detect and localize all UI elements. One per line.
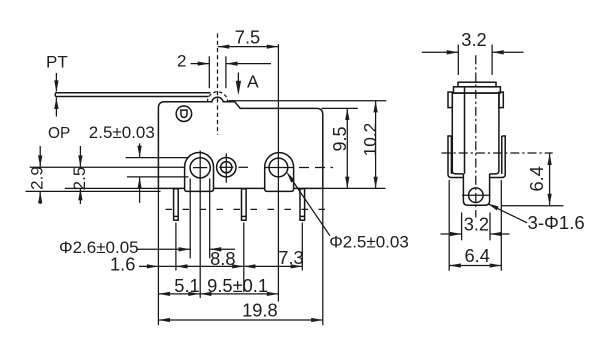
dim 2 arrows	[191, 63, 210, 65]
left mounting hole	[190, 158, 210, 178]
left mounting lug	[185, 152, 214, 191]
extension terminal 1 down	[175, 223, 177, 271]
side view plunger cap step	[454, 87, 501, 93]
switch body outline	[158, 97, 322, 188]
dim 7.3 line	[244, 265, 302, 267]
dim 9.5 vertical	[346, 108, 348, 188]
hole bottom tangent line	[127, 176, 189, 178]
side view lower ear left	[448, 136, 463, 178]
side view case seam line	[464, 87, 466, 174]
bottom edge extension right	[323, 187, 386, 189]
side view body right side	[490, 93, 499, 174]
svg-text:10.2: 10.2	[360, 123, 380, 157]
dim 9.5±0.1 line	[200, 293, 279, 295]
body bottom edge segment 2	[214, 187, 265, 189]
extension line top level 10.2	[228, 100, 386, 102]
hole center line	[30, 166, 185, 168]
extension hole right edge down	[209, 179, 211, 259]
side view lower ear right	[490, 136, 506, 178]
left hole vertical centerline	[199, 151, 201, 299]
side view body top edge	[452, 92, 499, 94]
dim 2.9 arrows	[39, 146, 41, 167]
side view terminal block	[463, 174, 489, 205]
right mounting lug	[265, 153, 294, 192]
dim 7.5 line	[218, 46, 279, 48]
svg-text:3.2: 3.2	[461, 29, 486, 50]
svg-text:OP: OP	[48, 125, 70, 142]
side view upper ear left	[448, 92, 452, 108]
side view horizontal centerline	[442, 152, 553, 154]
extension terminal 3 down	[301, 223, 303, 271]
pivot emblem circle	[176, 106, 192, 122]
dim 1.6 leader	[139, 265, 158, 267]
side view dim 3.2 top extension lines	[457, 45, 459, 76]
dim Φ2.6 leader and arrows	[137, 248, 190, 250]
middle hole inner	[221, 162, 232, 173]
svg-text:7.5: 7.5	[235, 27, 260, 48]
dim 19.8 line	[158, 319, 322, 321]
plunger hidden arc	[207, 92, 227, 102]
side view terminal bottom reference line	[502, 205, 564, 207]
side view dim 3.2 top arrows	[422, 51, 459, 53]
dim 8.8 line	[176, 265, 244, 267]
svg-text:2.5: 2.5	[70, 167, 89, 191]
middle hole outer	[217, 158, 236, 177]
view arrow A	[237, 73, 239, 93]
PT up arrow	[55, 97, 57, 116]
svg-text:9.5±0.1: 9.5±0.1	[207, 275, 268, 296]
pivot emblem inner	[181, 110, 187, 117]
svg-text:2.9: 2.9	[28, 166, 47, 190]
svg-text:9.5: 9.5	[330, 126, 350, 151]
side view hole crosshair	[462, 194, 491, 196]
dim 1.6 segment	[158, 265, 176, 267]
terminal dashed line	[166, 208, 332, 210]
svg-text:6.4: 6.4	[464, 245, 489, 266]
terminal 2	[242, 189, 247, 220]
extension terminal 2 down	[243, 223, 245, 293]
side view plunger cap top	[458, 82, 496, 87]
svg-text:3-Φ1.6: 3-Φ1.6	[528, 212, 585, 233]
extension hole left edge down	[189, 179, 191, 259]
PT down arrow	[55, 73, 57, 92]
side view dim 6.4 bottom line	[449, 265, 501, 267]
right hole center vertical line	[277, 44, 279, 302]
terminal 3	[300, 189, 305, 220]
side view dim 3.2 bottom extension lines	[461, 213, 463, 241]
svg-text:Φ2.5±0.03: Φ2.5±0.03	[329, 233, 409, 252]
svg-text:PT: PT	[46, 53, 68, 72]
bottom edge extension left	[65, 187, 158, 189]
dim 2.5±0.03 arrows	[139, 144, 141, 158]
svg-text:6.4: 6.4	[526, 166, 547, 191]
extension body right edge down	[322, 188, 324, 325]
dim 5.1 line	[158, 293, 200, 295]
svg-text:7.3: 7.3	[278, 247, 303, 268]
lever	[55, 93, 210, 97]
side view dim 6.4 bottom extension lines	[448, 180, 450, 271]
side view vertical centerline	[475, 55, 477, 217]
middle hole vertical centerline	[225, 153, 227, 182]
label 3-Φ1.6 leader arrow	[489, 204, 527, 223]
terminal 1	[174, 189, 179, 220]
extension line top level 9.5	[322, 107, 358, 109]
body bottom edge segment 3	[294, 187, 323, 189]
side view terminal hole	[469, 188, 484, 203]
right mounting hole	[269, 158, 288, 177]
dim 10.2 vertical	[375, 101, 377, 189]
svg-text:19.8: 19.8	[242, 300, 278, 321]
svg-text:2: 2	[177, 52, 186, 71]
dim 2.5 left arrows	[79, 146, 81, 167]
body bottom edge segment 1	[158, 187, 184, 189]
side view body left side	[452, 93, 463, 174]
lug bottom extension line	[26, 190, 161, 192]
side view dim 3.2 bottom arrows	[441, 233, 462, 235]
svg-text:3.2: 3.2	[464, 214, 489, 235]
dim 2 extension lines	[208, 56, 210, 88]
svg-text:5.1: 5.1	[174, 275, 199, 296]
side view dim 6.4 vertical line	[549, 153, 551, 205]
dim Φ2.5 leader arrow	[288, 174, 330, 236]
svg-text:1.6: 1.6	[110, 254, 135, 275]
extension body left edge down	[157, 188, 159, 325]
plunger centerline	[217, 34, 219, 136]
svg-text:A: A	[247, 71, 259, 91]
hole top tangent line	[126, 157, 189, 159]
side view upper ear right	[499, 92, 503, 108]
svg-text:8.8: 8.8	[210, 248, 235, 269]
svg-text:2.5±0.03: 2.5±0.03	[89, 123, 155, 142]
